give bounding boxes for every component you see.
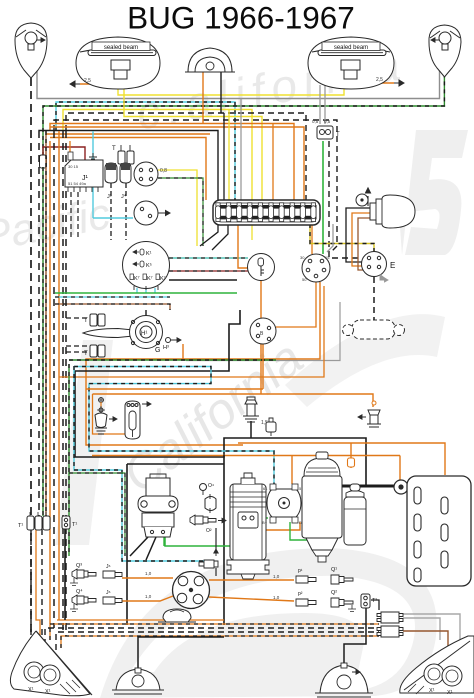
svg-text:2,5: 2,5 [84,78,91,84]
svg-text:Q⁴: Q⁴ [76,588,83,595]
svg-text:Q³: Q³ [76,563,82,569]
svg-text:J³: J³ [107,194,112,200]
svg-text:1,0: 1,0 [273,574,280,579]
svg-text:1,0: 1,0 [145,571,152,576]
svg-text:K¹: K¹ [146,251,152,257]
svg-text:K⁵: K⁵ [146,262,152,269]
svg-text:J⁴: J⁴ [121,193,127,200]
svg-text:O⁴: O⁴ [208,483,214,489]
svg-text:sealed beam: sealed beam [104,45,138,51]
svg-text:50: 50 [302,277,307,282]
svg-text:X¹: X¹ [45,689,51,695]
svg-text:X¹: X¹ [447,690,453,696]
svg-text:B+: B+ [262,520,268,525]
svg-text:T¹: T¹ [72,522,77,528]
svg-text:Q²: Q² [331,590,337,596]
svg-text:X¹: X¹ [28,687,34,693]
svg-text:J⁶: J⁶ [106,564,111,570]
svg-text:1,0: 1,0 [273,595,280,600]
svg-text:H¹: H¹ [141,331,147,337]
svg-text:51 54 49a: 51 54 49a [68,181,87,186]
svg-text:K⁷: K⁷ [147,275,153,282]
svg-text:T: T [112,146,116,152]
svg-text:1,0: 1,0 [145,594,152,599]
svg-text:T: T [336,132,340,138]
svg-text:30: 30 [300,255,305,260]
svg-text:E: E [390,261,395,270]
svg-text:30 15: 30 15 [68,164,79,169]
svg-text:sealed beam: sealed beam [334,45,368,51]
svg-text:T: T [84,318,88,324]
svg-text:T¹: T¹ [372,598,377,604]
svg-text:T: T [84,351,88,357]
svg-text:0,5: 0,5 [324,119,331,124]
svg-text:BUG 1966-1967: BUG 1966-1967 [127,0,355,36]
svg-text:0,8: 0,8 [160,168,167,174]
svg-text:0,5: 0,5 [312,119,319,124]
svg-text:X¹: X¹ [429,688,435,694]
svg-text:T¹: T¹ [18,523,23,529]
svg-text:Q¹: Q¹ [331,567,337,573]
svg-text:K⁷: K⁷ [160,275,166,282]
svg-text:K⁷: K⁷ [134,275,140,282]
svg-text:p¹: p¹ [298,568,303,574]
svg-text:61: 61 [263,486,268,491]
svg-text:O²: O² [206,528,212,534]
svg-text:G: G [155,347,160,354]
svg-text:p²: p² [298,591,303,597]
svg-text:H³: H³ [163,345,169,351]
svg-text:15: 15 [325,255,330,260]
svg-text:2,5: 2,5 [376,77,383,83]
svg-text:J⁶: J⁶ [106,590,111,596]
